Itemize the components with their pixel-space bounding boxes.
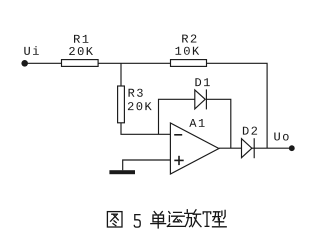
- wire op-amp output to Uo: [219, 147, 289, 149]
- wire D1 cathode to output node: [206, 99, 230, 148]
- input terminal dot Ui: [21, 60, 28, 67]
- caption glyph 放: [185, 210, 201, 227]
- label R2: [182, 35, 196, 43]
- ground: [109, 170, 135, 174]
- wire R3 bottom to inverting input: [121, 123, 170, 135]
- output terminal dot Uo: [289, 145, 295, 151]
- wire branch up to D1 anode: [159, 99, 195, 134]
- value 20K (R1): [69, 47, 93, 55]
- caption glyph 单: [151, 212, 166, 228]
- label D1: [195, 78, 209, 86]
- caption glyph 运: [167, 212, 184, 227]
- wire Ui to R1: [25, 62, 62, 64]
- resistor R1: [62, 60, 99, 67]
- resistor R3: [118, 86, 125, 123]
- diode D2: [242, 138, 255, 158]
- label R3: [129, 89, 143, 97]
- value 10K (R2): [176, 47, 200, 55]
- label Uo: [274, 133, 288, 141]
- caption glyph 型: [213, 210, 227, 226]
- label D2: [243, 127, 257, 135]
- caption glyph T: [203, 212, 211, 227]
- label A1: [189, 119, 204, 127]
- resistor R2: [171, 60, 207, 67]
- label R1: [74, 35, 88, 43]
- wire R1 to R2: [98, 62, 170, 64]
- caption glyph 5: [134, 215, 140, 228]
- diode D1: [195, 89, 207, 109]
- op-amp A1: [170, 123, 219, 174]
- value 20K (R3): [128, 102, 152, 110]
- wire ground to non-inverting input: [123, 160, 171, 170]
- node junction R1/R2/R3: [120, 63, 122, 86]
- plus sign (non-inverting input): [174, 156, 183, 165]
- caption glyph 图: [107, 212, 122, 227]
- caption: 图 5 单运放T型: [107, 210, 226, 228]
- label Ui: [24, 46, 39, 55]
- wire R2 to output node: [207, 63, 268, 148]
- minus sign (inverting input): [174, 134, 182, 136]
